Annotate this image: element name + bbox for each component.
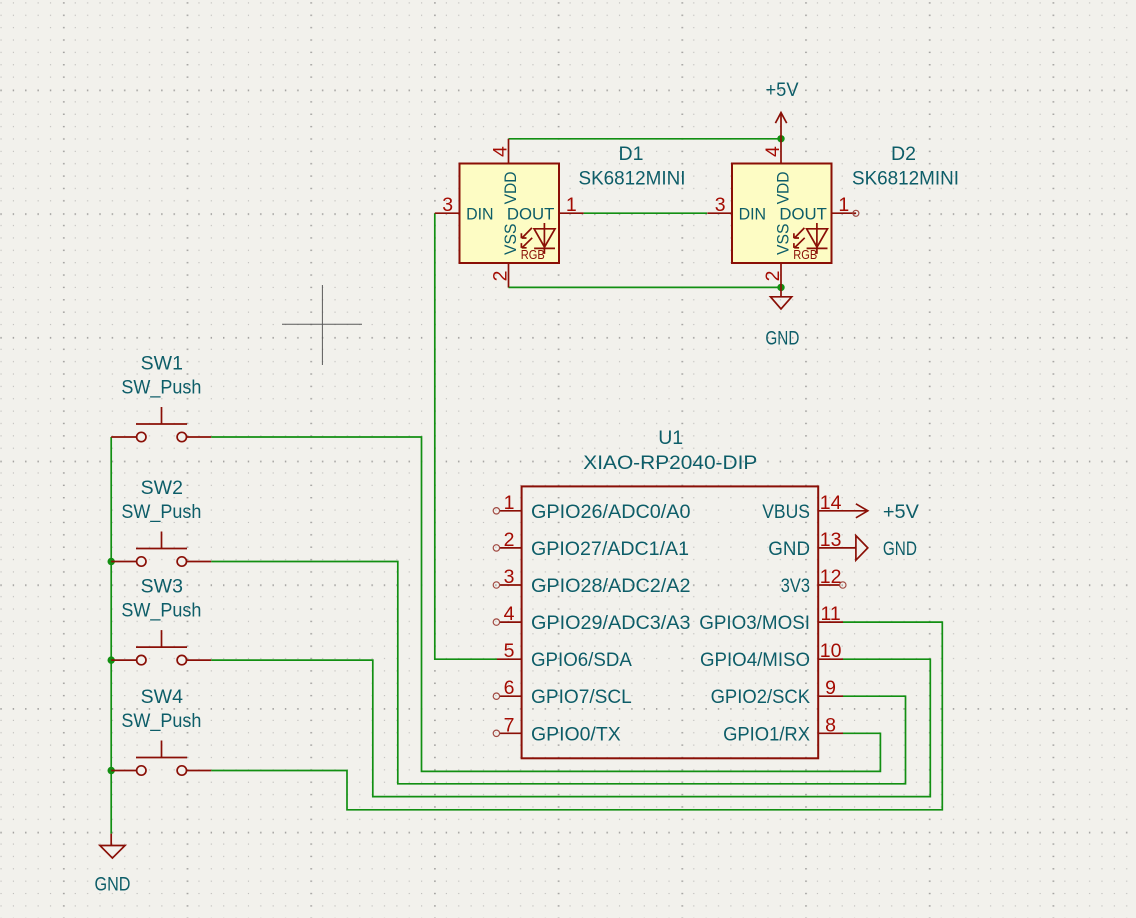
svg-text:GND: GND [768,538,810,560]
svg-text:1: 1 [504,492,515,514]
svg-text:2: 2 [504,529,515,551]
svg-text:SW_Push: SW_Push [121,501,201,523]
svg-text:GPIO3/MOSI: GPIO3/MOSI [699,612,810,634]
svg-text:VSS: VSS [774,224,793,256]
svg-text:6: 6 [504,677,515,699]
svg-text:VDD: VDD [501,171,520,204]
svg-text:1: 1 [566,194,577,216]
svg-text:SW2: SW2 [141,477,183,499]
svg-text:12: 12 [820,566,842,588]
svg-text:4: 4 [490,146,512,157]
svg-text:GPIO28/ADC2/A2: GPIO28/ADC2/A2 [531,575,691,597]
svg-text:GPIO27/ADC1/A1: GPIO27/ADC1/A1 [531,538,689,560]
svg-text:GND: GND [765,328,799,350]
svg-text:RGB: RGB [793,248,817,262]
svg-text:U1: U1 [658,427,683,449]
svg-text:SW_Push: SW_Push [121,710,201,732]
svg-text:SW4: SW4 [141,686,183,708]
svg-text:DOUT: DOUT [507,205,555,224]
svg-text:3: 3 [442,194,453,216]
svg-text:GND: GND [883,538,917,560]
svg-text:11: 11 [820,603,840,625]
svg-text:SW_Push: SW_Push [121,377,201,399]
svg-text:GPIO0/TX: GPIO0/TX [531,723,621,745]
svg-text:GPIO1/RX: GPIO1/RX [723,723,810,745]
svg-text:14: 14 [820,492,842,514]
svg-text:10: 10 [820,640,842,662]
svg-text:GPIO2/SCK: GPIO2/SCK [711,686,810,708]
svg-text:DIN: DIN [466,205,494,224]
svg-text:4: 4 [762,146,784,157]
svg-text:GPIO29/ADC3/A3: GPIO29/ADC3/A3 [531,612,691,634]
svg-text:3: 3 [715,194,726,216]
svg-text:8: 8 [825,714,836,736]
svg-text:9: 9 [825,677,836,699]
svg-text:2: 2 [762,270,784,281]
svg-text:VSS: VSS [501,224,520,256]
svg-text:GPIO6/SDA: GPIO6/SDA [531,649,632,671]
svg-text:GND: GND [95,874,131,896]
svg-text:2: 2 [490,270,512,281]
svg-text:XIAO-RP2040-DIP: XIAO-RP2040-DIP [583,452,757,474]
svg-text:+5V: +5V [766,79,799,101]
svg-text:SK6812MINI: SK6812MINI [852,168,959,190]
svg-text:5: 5 [504,640,515,662]
svg-text:1: 1 [838,194,849,216]
svg-text:13: 13 [820,529,842,551]
svg-text:VBUS: VBUS [762,501,810,523]
svg-text:3V3: 3V3 [781,575,810,597]
svg-text:SW_Push: SW_Push [121,600,201,622]
svg-text:SK6812MINI: SK6812MINI [579,168,686,190]
svg-text:DIN: DIN [739,205,767,224]
svg-text:DOUT: DOUT [779,205,827,224]
svg-text:SW1: SW1 [141,353,183,375]
svg-text:GPIO26/ADC0/A0: GPIO26/ADC0/A0 [531,501,691,523]
svg-text:GPIO7/SCL: GPIO7/SCL [531,686,632,708]
svg-text:SW3: SW3 [141,576,183,598]
svg-text:GPIO4/MISO: GPIO4/MISO [700,649,810,671]
svg-text:+5V: +5V [883,501,919,523]
svg-text:4: 4 [504,603,515,625]
svg-text:D1: D1 [619,143,644,165]
svg-text:RGB: RGB [521,248,545,262]
svg-text:3: 3 [504,566,515,588]
svg-text:VDD: VDD [774,171,793,204]
svg-text:D2: D2 [891,143,916,165]
svg-text:7: 7 [504,714,515,736]
